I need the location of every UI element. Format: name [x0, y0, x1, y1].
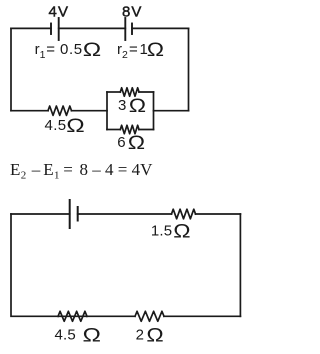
svg-text:8 – 4 = 4V: 8 – 4 = 4V [80, 160, 154, 179]
svg-text:Ω: Ω [128, 133, 145, 154]
wire between batteries [59, 27, 126, 29]
label 4.5 ohm (bottom circuit) [55, 324, 101, 346]
wire bottom-right circuit 1 [154, 110, 189, 112]
wire left side circuit 2 [11, 214, 58, 316]
svg-text:r2: r2 [117, 41, 128, 61]
svg-text:4V: 4V [49, 3, 70, 20]
wire top-right circuit 2 [196, 213, 241, 215]
battery B1 4V [51, 18, 59, 40]
wire bottom-left circuit 1 [11, 110, 48, 112]
svg-text:1.5: 1.5 [151, 223, 172, 240]
resistor R6 4.5 ohm (bottom circuit) [58, 311, 87, 321]
resistor R1 4.5 ohm (top circuit) [48, 106, 72, 115]
svg-text:E2–E1=: E2–E1= [10, 160, 73, 182]
wire bottom-mid circuit 2 [87, 315, 135, 317]
wire top-mid circuit 2 [78, 213, 172, 215]
battery B3 [70, 200, 78, 228]
svg-text:Ω: Ω [173, 221, 190, 242]
resistor R5 2 ohm [135, 311, 164, 321]
svg-text:r1: r1 [35, 41, 46, 61]
wire to parallel box [72, 110, 108, 112]
label r1 = 0.5 ohm [35, 39, 102, 61]
wire bottom-right circuit 2 [164, 315, 240, 317]
svg-text:Ω: Ω [146, 325, 163, 346]
resistor R4 1.5 ohm [172, 209, 196, 219]
svg-text:4.5: 4.5 [55, 326, 76, 343]
wire right side circuit 2 [239, 214, 241, 316]
parallel box left bar [106, 92, 108, 130]
wire bottom-left circuit 2 [58, 315, 87, 317]
svg-text:Ω: Ω [83, 324, 101, 346]
label 2 ohm [136, 325, 164, 346]
svg-text:4.5: 4.5 [45, 117, 67, 134]
resistor R3 6 ohm branch [107, 129, 120, 131]
wire left side circuit 1 [10, 28, 12, 110]
wire top-left segment circuit 1 [11, 27, 51, 29]
resistor R2 3 ohm branch [107, 91, 120, 93]
label 1.5 ohm [151, 221, 191, 242]
equation E2 - E1 = 8 - 4 = 4V [10, 160, 153, 182]
svg-text:8V: 8V [122, 3, 142, 20]
svg-text:=: = [129, 41, 138, 58]
svg-text:Ω: Ω [147, 40, 164, 61]
parallel box right bar [153, 92, 155, 130]
label 3 ohm [118, 96, 146, 117]
label 6 ohm [117, 133, 145, 154]
svg-text:Ω: Ω [66, 115, 84, 137]
label 4.5 ohm (top circuit) [45, 115, 85, 137]
svg-text:3: 3 [118, 97, 126, 114]
svg-text:0.5: 0.5 [60, 41, 83, 58]
wire top-left circuit 2 [11, 213, 70, 215]
wire right side circuit 1 [188, 28, 190, 110]
svg-text:Ω: Ω [129, 96, 146, 117]
svg-text:2: 2 [136, 326, 144, 343]
label r2 = 1 ohm [117, 40, 164, 61]
svg-text:Ω: Ω [83, 39, 101, 61]
wire top-right segment circuit 1 [132, 27, 189, 29]
svg-text:=: = [46, 41, 55, 58]
battery B2 8V [125, 18, 132, 40]
svg-text:6: 6 [117, 134, 125, 151]
